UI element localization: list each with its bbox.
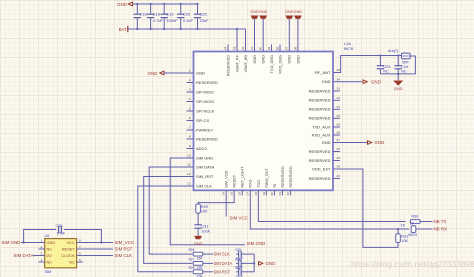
svg-text:R29: R29 xyxy=(201,205,208,209)
svg-text:1: 1 xyxy=(41,238,43,242)
wire VDD_EXT from pin 24 to R31 xyxy=(333,169,398,247)
svg-text:15: 15 xyxy=(230,192,234,196)
svg-text:RXD_AUX: RXD_AUX xyxy=(312,132,331,137)
svg-text:22: 22 xyxy=(286,192,290,196)
svg-text:10: 10 xyxy=(410,222,414,226)
svg-text:NB TX: NB TX xyxy=(434,219,447,224)
svg-text:PWM_DVT: PWM_DVT xyxy=(264,168,269,188)
wire common ground vertical of SIM caps xyxy=(253,254,255,272)
svg-text:C25: C25 xyxy=(235,248,241,252)
svg-text:SIM: SIM xyxy=(45,270,52,274)
svg-text:32: 32 xyxy=(337,96,341,100)
SIM U5 right pin 6 CLOCK xyxy=(77,255,83,257)
svg-text:ADC0: ADC0 xyxy=(196,146,207,151)
svg-text:SIM GND: SIM GND xyxy=(2,240,21,245)
svg-text:RESERVED: RESERVED xyxy=(280,166,285,188)
svg-text:1: 1 xyxy=(189,69,191,73)
IC U1 left pin 7 PWRKEY xyxy=(187,129,194,131)
svg-text:44: 44 xyxy=(223,46,227,50)
svg-text:4.7uF: 4.7uF xyxy=(153,18,164,23)
svg-text:VBAT_RF: VBAT_RF xyxy=(234,54,239,72)
svg-text:NC: NC xyxy=(47,260,53,265)
svg-text:29: 29 xyxy=(337,123,341,127)
svg-text:11: 11 xyxy=(187,163,190,167)
svg-text:C22: C22 xyxy=(200,12,207,17)
svg-text:RESERVED: RESERVED xyxy=(309,116,331,121)
IC U1 left pin 2 RESERVED xyxy=(187,82,194,84)
capacitor C23 NC xyxy=(379,56,381,66)
svg-text:R30: R30 xyxy=(411,215,418,219)
capacitor C16 xyxy=(136,4,138,14)
svg-text:RESERVED: RESERVED xyxy=(309,98,331,103)
component MX24 on NB RX line xyxy=(411,226,416,233)
svg-text:12: 12 xyxy=(187,172,191,176)
wire SIM net from pin 12 xyxy=(144,177,194,264)
IC U1 bottom pin 21 RESERVED xyxy=(282,190,284,195)
IC U1 right pin 30 RESERVED xyxy=(333,117,340,119)
IC U1 right pin 31 RESERVED xyxy=(333,108,340,110)
svg-text:27: 27 xyxy=(337,138,341,142)
IC U1 left pin 4 SPI MOSI xyxy=(187,101,194,103)
SIM U5 right pin 5 NC xyxy=(77,261,83,263)
svg-text:PWRKEY: PWRKEY xyxy=(196,127,214,132)
svg-text:17: 17 xyxy=(246,192,250,196)
svg-text:0.1uF: 0.1uF xyxy=(183,18,194,23)
svg-text:2: 2 xyxy=(41,245,43,249)
svg-text:35: 35 xyxy=(337,68,341,72)
capacitor C25 33pF xyxy=(236,253,239,255)
wire GND stub to IC top xyxy=(254,19,256,52)
svg-text:U5: U5 xyxy=(45,234,50,238)
svg-text:33: 33 xyxy=(337,87,341,91)
IC U1 bottom pin 16 NET_LIGHT xyxy=(241,190,243,195)
svg-text:RESERVED: RESERVED xyxy=(225,55,230,77)
wire GND rail of decoupling caps xyxy=(133,3,198,5)
svg-text:SIM_VCC: SIM_VCC xyxy=(115,240,135,245)
svg-text:SIM DATA: SIM DATA xyxy=(214,261,233,266)
IC U1 right pin 29 TXD_AUX xyxy=(333,126,340,128)
svg-text:RESET: RESET xyxy=(232,174,237,188)
svg-text:R31: R31 xyxy=(401,234,408,238)
IC U1 left pin 8 RESERVED xyxy=(187,138,194,140)
wire from pin 15 to R29 xyxy=(198,190,234,204)
svg-text:C31: C31 xyxy=(201,225,208,229)
SIM U5 right pin 8 VCC xyxy=(77,242,83,244)
IC U1 right pin 33 RESERVED xyxy=(333,90,340,92)
svg-text:26: 26 xyxy=(337,147,341,151)
wire SIM VCC from pin 14 xyxy=(225,190,227,216)
svg-text:C18: C18 xyxy=(153,12,160,17)
svg-text:VDD_EXT: VDD_EXT xyxy=(312,166,331,171)
svg-text:SIM DATA: SIM DATA xyxy=(14,253,34,258)
resistor R31 10K pull-up xyxy=(397,229,399,234)
svg-text:BK76: BK76 xyxy=(344,47,353,51)
svg-text:SIM GND: SIM GND xyxy=(196,155,213,160)
wire GND to pin 1 xyxy=(164,72,194,74)
svg-text:28: 28 xyxy=(337,131,341,135)
svg-text:2: 2 xyxy=(189,78,191,82)
svg-text:TXD_DBG: TXD_DBG xyxy=(269,55,274,73)
capacitor C18 4.7uF xyxy=(150,4,152,14)
svg-text:34: 34 xyxy=(337,77,341,81)
wire SIM net from pin 11 xyxy=(149,167,193,254)
wire GND stub to IC top xyxy=(262,19,264,52)
svg-text:SPI MISO: SPI MISO xyxy=(196,89,214,94)
wire GND pin 34 xyxy=(333,81,362,83)
IC U1 top pin 44 RESERVED xyxy=(227,45,229,52)
svg-text:9: 9 xyxy=(189,144,191,148)
svg-text:8: 8 xyxy=(79,238,81,242)
svg-text:SIM RST: SIM RST xyxy=(214,269,231,274)
resistor R30 1K xyxy=(410,220,420,224)
IC U1 left pin 9 ADC0 xyxy=(187,148,194,150)
power port GND right of pin 27 xyxy=(368,140,372,144)
svg-text:TXD: TXD xyxy=(256,180,261,188)
wire C31 to ground xyxy=(197,228,199,236)
svg-text:10K: 10K xyxy=(201,210,208,214)
capacitor C24 NC xyxy=(397,56,399,66)
svg-text:SIM_RST: SIM_RST xyxy=(196,174,214,179)
IC U1 right pin 28 RXD_AUX xyxy=(333,134,340,136)
power port GND right of SIM caps xyxy=(259,261,263,265)
svg-text:MX24: MX24 xyxy=(408,233,417,237)
resistor R27 22R xyxy=(193,262,203,266)
IC U1 left pin 3 SPI MISO xyxy=(187,91,194,93)
svg-text:100nF: 100nF xyxy=(166,18,178,23)
wire SIM DATA to U5 pin 3 xyxy=(33,255,39,257)
svg-text:42: 42 xyxy=(241,46,245,50)
wire U5 CLOCK to SIM CLK label xyxy=(83,255,113,257)
svg-text:RXD: RXD xyxy=(248,179,253,187)
svg-text:SIM CLK: SIM CLK xyxy=(115,253,133,258)
svg-text:GND: GND xyxy=(250,10,259,14)
svg-text:NB RX: NB RX xyxy=(434,227,447,232)
svg-text:10nF: 10nF xyxy=(57,231,66,235)
svg-text:NC: NC xyxy=(383,69,389,73)
resistor R29 10K xyxy=(196,204,201,213)
svg-text:41: 41 xyxy=(250,46,254,50)
capacitor C20 0.1uF xyxy=(180,4,182,14)
svg-text:GND: GND xyxy=(295,55,300,64)
svg-text:R27: R27 xyxy=(189,257,195,261)
wire NB TX from pin 18 xyxy=(258,190,405,221)
svg-text:RESERVED: RESERVED xyxy=(309,176,331,181)
ground symbol RF xyxy=(397,74,399,80)
svg-text:C23: C23 xyxy=(383,65,390,69)
svg-text:40: 40 xyxy=(259,46,263,50)
wire SIM GND from pin 10 xyxy=(170,158,245,245)
capacitor C19 100nF xyxy=(163,4,165,14)
svg-text:SIM VCC: SIM VCC xyxy=(230,215,248,220)
capacitor C31 10uF xyxy=(194,224,201,226)
power port GND right of pin 34 xyxy=(363,80,367,84)
svg-text:GND: GND xyxy=(394,86,403,91)
svg-text:SIM GND: SIM GND xyxy=(247,241,266,246)
svg-text:19: 19 xyxy=(262,192,266,196)
svg-text:VBAT_BB: VBAT_BB xyxy=(243,55,248,73)
svg-text:GND: GND xyxy=(47,240,56,245)
capacitor C22 22uF xyxy=(197,4,199,14)
svg-text:10K: 10K xyxy=(401,239,408,243)
wire MX24 to NB RX label xyxy=(416,228,433,230)
svg-text:NC: NC xyxy=(69,260,75,265)
wire RF_ANT from pin 35 xyxy=(333,56,402,73)
svg-text:7: 7 xyxy=(189,126,191,130)
wire SIM GND to U5 pin 1 xyxy=(21,242,39,244)
IC U1 right pin 23 RESERVED xyxy=(333,178,340,180)
svg-text:18: 18 xyxy=(254,192,258,196)
svg-text:8: 8 xyxy=(189,135,191,139)
svg-text:GND: GND xyxy=(117,2,127,7)
svg-text:NC: NC xyxy=(47,247,53,252)
svg-text:SPI MOSI: SPI MOSI xyxy=(196,99,214,104)
svg-text:C24: C24 xyxy=(401,65,408,69)
svg-text:SPI CS: SPI CS xyxy=(196,118,209,123)
wire antenna ground leg xyxy=(380,56,415,74)
svg-text:NET_LIGHT: NET_LIGHT xyxy=(240,166,245,188)
svg-text:10uF: 10uF xyxy=(201,229,210,233)
svg-text:SIM CLK: SIM CLK xyxy=(196,183,212,188)
IC U1 bottom pin 22 RESERVED xyxy=(290,190,292,195)
resistor R26 22R xyxy=(193,252,203,256)
svg-text:L1A: L1A xyxy=(344,42,351,46)
svg-text:BAT: BAT xyxy=(119,27,128,32)
svg-text:4: 4 xyxy=(189,97,191,101)
svg-text:7: 7 xyxy=(79,245,81,249)
svg-text:C16: C16 xyxy=(140,12,147,17)
wire GND pin 27 xyxy=(333,142,368,144)
wire BAT rail xyxy=(128,28,246,30)
svg-text:20: 20 xyxy=(270,192,274,196)
svg-text:CLOCK: CLOCK xyxy=(61,253,75,258)
svg-text:SIM CLK: SIM CLK xyxy=(214,252,231,257)
svg-text:C19: C19 xyxy=(166,12,173,17)
svg-text:I/O: I/O xyxy=(47,253,52,258)
svg-text:RESERVED: RESERVED xyxy=(309,149,331,154)
capacitor C27 33pF xyxy=(236,271,239,273)
wire SIM net from pin 13 xyxy=(138,186,194,272)
SIM U5 right pin 7 RESET xyxy=(77,248,83,250)
svg-text:RXD_DBG: RXD_DBG xyxy=(277,55,282,74)
svg-text:VCC: VCC xyxy=(67,240,75,245)
svg-text:https://blog.csdn.net/qq273338: https://blog.csdn.net/qq273338981 xyxy=(351,259,474,269)
svg-text:C36: C36 xyxy=(56,224,63,228)
svg-text:10: 10 xyxy=(187,154,191,158)
IC U1 right pin 32 RESERVED xyxy=(333,99,340,101)
svg-text:GND: GND xyxy=(194,241,203,246)
svg-text:50R: 50R xyxy=(402,61,409,65)
svg-text:TXD_AUX: TXD_AUX xyxy=(312,124,331,129)
svg-text:GND: GND xyxy=(322,79,331,84)
IC U1 bottom pin 20 RI xyxy=(274,190,276,195)
SIM U5 left pin 4 NC xyxy=(39,261,45,263)
wire SIM CLK row xyxy=(203,253,213,255)
svg-text:RESERVED: RESERVED xyxy=(288,166,293,188)
wire GND stub to IC top xyxy=(288,19,290,52)
svg-text:5: 5 xyxy=(189,107,191,111)
svg-text:43: 43 xyxy=(232,46,236,50)
wire GND stub to IC top xyxy=(297,19,299,52)
wire U5 VCC to SIM_VCC label xyxy=(83,242,113,244)
IC U1 top pin 38 RXD_DBG xyxy=(279,45,281,52)
wire VBAT_BB from BAT rail to pin 42 xyxy=(245,29,247,52)
svg-text:SPI NCLK: SPI NCLK xyxy=(196,108,215,113)
svg-text:C20: C20 xyxy=(183,12,191,17)
svg-text:39: 39 xyxy=(267,46,271,50)
svg-text:4: 4 xyxy=(41,258,43,262)
svg-text:6: 6 xyxy=(79,251,81,255)
svg-text:36: 36 xyxy=(293,46,297,50)
IC U1 top pin 39 TXD_DBG xyxy=(271,45,273,52)
svg-text:14: 14 xyxy=(222,192,226,196)
svg-text:23: 23 xyxy=(337,174,341,178)
svg-text:RESET: RESET xyxy=(62,247,76,252)
svg-text:13: 13 xyxy=(187,182,191,186)
svg-text:RESERVED: RESERVED xyxy=(309,107,331,112)
svg-text:3: 3 xyxy=(41,251,43,255)
wire R29 to C31 xyxy=(197,213,199,225)
svg-text:30: 30 xyxy=(337,114,341,118)
svg-text:R26: R26 xyxy=(189,248,195,252)
svg-text:RI: RI xyxy=(272,184,277,188)
svg-text:SIM DATA: SIM DATA xyxy=(196,164,215,169)
wire SIM RST row xyxy=(203,271,213,273)
svg-text:25: 25 xyxy=(337,156,341,160)
svg-text:37: 37 xyxy=(285,46,289,50)
SIM U5 left pin 1 GND xyxy=(39,242,45,244)
IC U1 right pin 26 RESERVED xyxy=(333,151,340,153)
svg-text:Ant(?): Ant(?) xyxy=(388,49,399,53)
svg-text:21: 21 xyxy=(278,192,282,196)
svg-text:C27: C27 xyxy=(235,266,241,270)
IC U1 bottom pin 19 PWM_DVT xyxy=(265,190,267,195)
wire NB RX from pin 17 xyxy=(250,190,409,229)
svg-text:GND: GND xyxy=(375,140,385,145)
svg-text:GND: GND xyxy=(266,261,276,266)
svg-text:SIM RST: SIM RST xyxy=(115,247,133,252)
resistor R28 22R xyxy=(193,270,203,274)
op IC U1 body (radio module) xyxy=(194,52,334,191)
SIM connector U5 body xyxy=(45,239,77,268)
svg-text:22uF: 22uF xyxy=(200,18,209,23)
svg-text:22R: 22R xyxy=(197,257,204,261)
svg-text:R28: R28 xyxy=(189,266,195,270)
svg-text:16: 16 xyxy=(238,192,242,196)
svg-text:GND: GND xyxy=(322,140,331,145)
svg-text:GND: GND xyxy=(148,71,158,76)
ground symbol below C31 xyxy=(195,236,202,239)
wire R30 to NB TX label xyxy=(420,221,433,223)
IC U1 left pin 5 SPI NCLK xyxy=(187,110,194,112)
svg-text:RF_ANT: RF_ANT xyxy=(315,70,331,75)
SIM U5 left pin 3 I/O xyxy=(39,255,45,257)
svg-text:GND: GND xyxy=(285,10,294,14)
svg-text:GND: GND xyxy=(259,10,268,14)
svg-text:6: 6 xyxy=(189,116,191,120)
IC U1 left pin 6 SPI CS xyxy=(187,120,194,122)
svg-text:GND: GND xyxy=(294,10,303,14)
capacitor C36 10nF bypass xyxy=(24,230,57,243)
IC U1 right pin 25 RESERVED xyxy=(333,160,340,162)
svg-text:GND: GND xyxy=(252,55,257,64)
svg-text:38: 38 xyxy=(275,46,279,50)
svg-text:C26: C26 xyxy=(235,257,241,261)
svg-text:5: 5 xyxy=(79,258,81,262)
svg-text:31: 31 xyxy=(337,105,341,109)
svg-text:GND: GND xyxy=(371,79,381,84)
svg-text:GND: GND xyxy=(287,55,292,64)
svg-text:RESERVED: RESERVED xyxy=(309,158,331,163)
svg-text:3: 3 xyxy=(189,88,191,92)
svg-text:RESERVED: RESERVED xyxy=(309,88,331,93)
wire U5 RESET to SIM RST label xyxy=(83,248,113,250)
svg-text:24: 24 xyxy=(337,165,341,169)
capacitor C26 33pF xyxy=(236,262,239,264)
SIM U5 left pin 2 NC xyxy=(39,248,45,250)
svg-text:GND: GND xyxy=(261,55,266,64)
svg-text:RESERVED: RESERVED xyxy=(196,80,218,85)
wire VBAT_RF from BAT rail to pin 43 xyxy=(236,29,238,52)
svg-text:SIM_VDD: SIM_VDD xyxy=(224,170,229,187)
svg-text:GND: GND xyxy=(196,70,205,75)
wire SIM DATA row xyxy=(203,262,213,264)
svg-text:RESERVED: RESERVED xyxy=(196,136,218,141)
svg-text:NC: NC xyxy=(401,69,407,73)
svg-text:1K: 1K xyxy=(401,223,406,227)
